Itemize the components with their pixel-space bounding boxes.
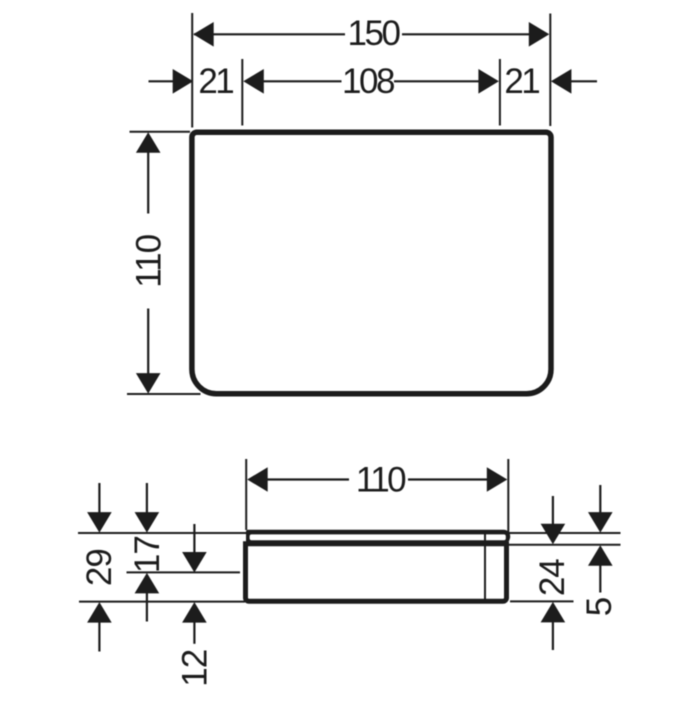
svg-text:21: 21: [504, 62, 539, 101]
dimension 5 bottom stem: [599, 565, 601, 592]
dimension 12 bottom stem: [193, 622, 195, 644]
dimension 12 top arrowhead: [182, 552, 207, 573]
extension line bottom for 110: [127, 393, 201, 395]
svg-text:17: 17: [128, 536, 167, 573]
dimension 108 line right segment: [394, 80, 479, 82]
shelf body: [246, 544, 507, 602]
dimension 17 bottom stem: [146, 593, 148, 622]
dimension 24 bottom arrowhead: [541, 602, 566, 623]
glass shelf plate outer: [246, 530, 510, 543]
front view outline: [192, 132, 551, 394]
dimension 150 line left segment: [194, 33, 345, 35]
dimension 29 top arrowhead: [87, 512, 112, 533]
dimension 150 left arrowhead: [193, 22, 214, 47]
dimension 29 bottom stem: [98, 622, 100, 652]
extension line right x508 side view: [507, 459, 509, 541]
dimension 21 right arrowhead: [551, 69, 572, 94]
dimension 29 bottom arrowhead: [87, 602, 112, 623]
dimension 21 right outside stem: [571, 80, 597, 82]
svg-text:21: 21: [198, 62, 233, 101]
shelf body divider line: [484, 534, 486, 600]
svg-text:12: 12: [175, 650, 214, 687]
dimension 17 top stem: [146, 483, 148, 513]
dimension 150 right arrowhead: [529, 22, 550, 47]
dimension 5 top arrowhead: [588, 512, 613, 533]
dimension 21 left outside stem: [149, 80, 175, 82]
dimension 17 bottom arrowhead: [135, 573, 160, 594]
dimension 110 width line right segment: [408, 478, 487, 480]
extension line left x192: [191, 13, 193, 128]
dimension 108 left arrowhead: [243, 69, 263, 94]
dimension 150 line right segment: [402, 33, 548, 35]
dimension 24 top arrowhead: [541, 524, 566, 545]
dimension 17 top arrowhead: [135, 512, 160, 533]
reference line L1 y533: [78, 532, 246, 534]
svg-text:110: 110: [356, 461, 406, 500]
glass shelf plate inner white: [250, 534, 506, 540]
reference line B y544 right: [509, 544, 621, 546]
dimension 5 bottom arrowhead: [588, 545, 613, 566]
reference line A y533 right: [509, 532, 621, 534]
svg-text:5: 5: [580, 598, 619, 616]
dimension 24 top stem: [552, 496, 554, 524]
dimension 110 bottom stem: [147, 309, 149, 375]
extension line left x246 side view: [245, 459, 247, 530]
dimension 21 left arrowhead: [173, 69, 194, 94]
dimension 12 bottom arrowhead: [182, 602, 207, 623]
dimension 110 top stem: [147, 152, 149, 214]
dimension 110 top arrowhead: [136, 132, 161, 153]
dimension 12 top stem: [193, 524, 195, 553]
reference line C y601 right: [510, 600, 574, 602]
svg-text:108: 108: [342, 62, 394, 101]
dimension 29 top stem: [98, 483, 100, 513]
svg-text:29: 29: [80, 549, 119, 586]
svg-text:24: 24: [533, 559, 572, 596]
svg-text:150: 150: [348, 14, 401, 53]
extension line x242: [241, 59, 243, 126]
extension line x500: [499, 59, 501, 126]
dimension 110 width left arrowhead: [247, 467, 268, 492]
dimension 110 width right arrowhead: [487, 467, 508, 492]
extension line top for 110: [130, 131, 191, 133]
dimension 108 line left segment: [263, 80, 342, 82]
dimension 110 bottom arrowhead: [136, 373, 161, 394]
extension line right x550: [549, 14, 551, 127]
dimension 108 right arrowhead: [478, 69, 499, 94]
dimension 5 top stem: [599, 485, 601, 513]
dimension 110 width line left segment: [267, 478, 349, 480]
svg-text:110: 110: [130, 234, 169, 287]
reference line L3 y601: [79, 601, 245, 603]
dimension 24 bottom stem: [552, 622, 554, 650]
reference line L2 y572: [127, 571, 241, 573]
